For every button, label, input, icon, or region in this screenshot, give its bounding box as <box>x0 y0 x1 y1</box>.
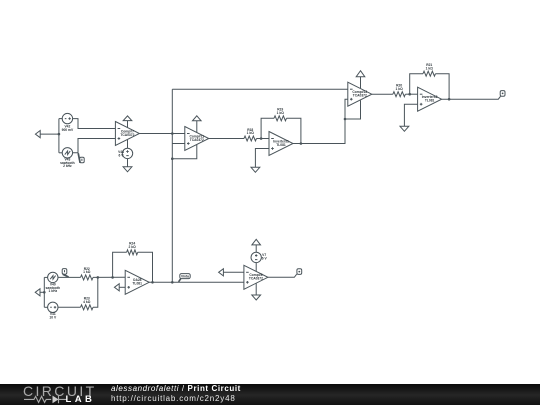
wire left bus V42-V43 <box>58 119 60 153</box>
wire R23 up to summing node <box>93 277 98 307</box>
voltage source V41 10V <box>48 302 58 312</box>
wire flag to bus <box>40 133 59 135</box>
junction dot feedback tap <box>111 276 114 279</box>
output pin OUT1 <box>500 91 505 97</box>
resistor R20 1k <box>393 92 405 97</box>
ground below Comp8 <box>252 295 261 300</box>
wire V43 left <box>59 152 63 154</box>
wire Comp11 plus to bus <box>172 143 185 145</box>
svg-text:2 kHz: 2 kHz <box>63 164 72 168</box>
wire flag to OA28 plus <box>119 286 125 288</box>
wire R20 to Inverters2 minus <box>405 93 417 95</box>
ground below Inverters2 <box>400 126 409 131</box>
wire OA28 out to Comp8 plus <box>149 281 244 283</box>
wire V41 to R23 <box>58 306 81 308</box>
junction dot bus/flag <box>58 133 61 136</box>
wire R24 down to OA28 out <box>138 252 153 282</box>
CircuitLab logo zigzag + diode <box>0 384 110 405</box>
op-amp Inverters2 TL081 <box>418 87 442 111</box>
junction dot OA28 output <box>151 281 154 284</box>
svg-text:TCA0372: TCA0372 <box>249 277 263 281</box>
svg-text:6 V: 6 V <box>262 257 268 261</box>
CircuitLab logo text <box>23 384 97 398</box>
op-amp Inverters1 TL081 <box>269 132 293 156</box>
wire V42 to Comp7 minus <box>73 119 116 129</box>
wire flag to Comp8 minus <box>223 271 244 273</box>
voltage source V43 sawtooth 2kHz <box>62 148 72 158</box>
net flag on Comp8 minus <box>219 269 224 276</box>
svg-text:TL081: TL081 <box>132 282 142 286</box>
net label Vinta <box>179 274 191 282</box>
svg-text:1 kΩ: 1 kΩ <box>247 131 255 135</box>
wire V43 to Comp7 plus <box>73 139 116 153</box>
wire feedback up left R19 <box>261 118 274 138</box>
junction dot summing node <box>97 276 100 279</box>
junction dot Inverters1 output <box>300 142 303 145</box>
wire Comp7 output to bus <box>139 133 172 135</box>
ground below V44 <box>123 167 132 172</box>
svg-text:1 kΩ: 1 kΩ <box>426 66 434 70</box>
junction dot bus at Comp7 out <box>171 132 174 135</box>
wire feedback up to R21 <box>410 74 423 95</box>
svg-text:10 V: 10 V <box>49 316 57 320</box>
scope probe on V40 node <box>62 269 68 277</box>
svg-text:Vinta: Vinta <box>181 274 189 278</box>
wire V7 to Comp8 top <box>255 263 257 272</box>
op-amp Comp#8 TCA0372 <box>244 265 268 289</box>
svg-text:1 kΩ: 1 kΩ <box>83 270 91 274</box>
op-amp Comp#12 TCA0372 <box>348 82 372 106</box>
voltage source V44 6V <box>122 148 132 158</box>
op-amp Comp#7 TCA0372 <box>115 122 139 146</box>
wire Comp8 out to pin <box>268 274 297 277</box>
resistor R22 1k <box>81 275 93 280</box>
net flag on OA28 plus <box>114 284 119 291</box>
net flag IN1 (left arrow) <box>35 131 40 138</box>
resistor R18 1k <box>244 136 256 141</box>
voltage source V42 900mV <box>62 113 72 123</box>
wire Comp12 VEE stub <box>345 100 361 119</box>
svg-text:TCA0372: TCA0372 <box>120 133 134 137</box>
svg-text:TL081: TL081 <box>425 99 435 103</box>
wire Comp8 VEE to ground <box>255 284 257 296</box>
wire Comp11 VEE loop <box>172 145 197 159</box>
svg-text:1 kΩ: 1 kΩ <box>277 111 285 115</box>
resistor R23 4k <box>81 305 93 310</box>
svg-text:TL081: TL081 <box>276 143 286 147</box>
wire summing node to OA28 minus <box>93 276 125 278</box>
svg-text:6 V: 6 V <box>119 154 125 158</box>
svg-text:1 kHz: 1 kHz <box>48 289 57 293</box>
ground below Inverters1 <box>251 167 260 172</box>
wire V41 left <box>44 306 47 308</box>
svg-text:1 kΩ: 1 kΩ <box>396 87 404 91</box>
wire Comp11 out to R18 <box>209 138 244 140</box>
VCC arrow above Comp#7 <box>123 116 132 128</box>
svg-text:TCA0372: TCA0372 <box>353 94 367 98</box>
junction dot Inverters2 summing <box>408 93 411 96</box>
wire Comp7 VEE to V44 <box>127 140 129 149</box>
wire left bus V40-V41 <box>43 277 45 307</box>
junction dot Inverters2 output <box>448 98 451 101</box>
wire Comp12 out to R20 <box>372 93 393 95</box>
wire flag2 to bus2 <box>40 291 44 293</box>
resistor R21 1k <box>423 71 435 76</box>
svg-text:TCA0372: TCA0372 <box>190 138 204 142</box>
output pin OUT2 <box>297 269 302 275</box>
wire top run to Comp12 minus <box>172 88 347 90</box>
VCC arrow above Comp#12 <box>356 71 365 89</box>
wire V44 to ground <box>127 159 129 167</box>
svg-text:900 mV: 900 mV <box>62 128 74 132</box>
LAB logo text <box>66 395 96 405</box>
wire Inverters2 plus to ground <box>404 104 417 126</box>
wire Comp12 plus loop <box>345 99 348 119</box>
wire bus to Comp11 minus <box>172 133 185 135</box>
resistor R24 2k <box>127 250 138 255</box>
voltage source V40 sawtooth 1kHz <box>48 272 58 282</box>
junction dot bus at Comp11 loop <box>171 157 174 160</box>
junction dot bus at OA28 out <box>171 281 174 284</box>
op-amp OA28 TL081 <box>125 270 149 294</box>
wire vertical bus <box>171 89 173 282</box>
footer bar <box>0 384 540 405</box>
svg-text:4 kΩ: 4 kΩ <box>83 300 91 304</box>
wire R18 to Inverters1 minus <box>257 138 270 140</box>
wire V40 left <box>44 276 47 278</box>
attribution text <box>111 384 241 404</box>
VCC arrow above Comp#8 <box>252 239 261 252</box>
junction dot bus2/flag2 <box>43 291 46 294</box>
op-amp Comp#11 TCA0372 <box>185 127 209 151</box>
wire R19 down to Inverters1 out <box>287 118 301 143</box>
wire Inverters2 out to pin <box>442 96 501 99</box>
voltage source V7 6V <box>251 252 261 262</box>
scope probe on V43 node <box>78 153 84 163</box>
wire feedback up to R24 <box>113 252 127 277</box>
junction dot Inverters1 summing <box>260 137 263 140</box>
VCC arrow above Comp#11 <box>193 116 202 133</box>
wire Inverters1 out to Comp12 loop <box>293 119 345 144</box>
resistor R19 1k <box>274 116 286 121</box>
wire Inverters1 plus to ground <box>255 149 269 168</box>
wire V40 to R22 <box>58 276 81 278</box>
wire V42 left <box>59 118 63 120</box>
net flag IN2 (left arrow) <box>35 289 40 296</box>
junction dot Comp12 loop <box>344 118 347 121</box>
wire R21 down to Inverters2 out <box>436 74 450 100</box>
svg-text:2 kΩ: 2 kΩ <box>129 245 137 249</box>
